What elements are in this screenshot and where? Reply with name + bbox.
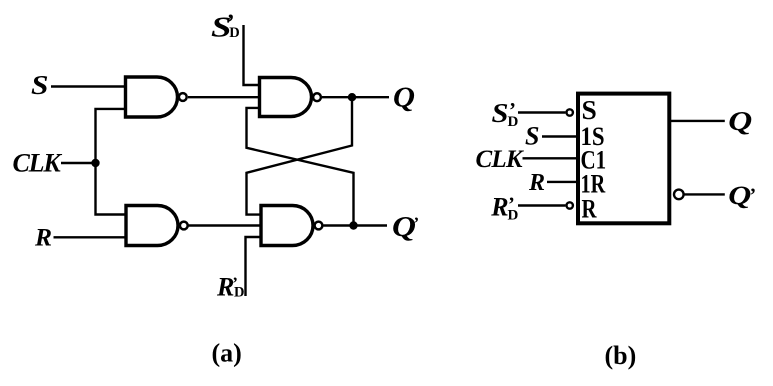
bubble G1 output bbox=[179, 93, 187, 101]
symbol box U1 bbox=[578, 94, 669, 224]
wire G2 output to Q bbox=[322, 96, 389, 98]
wire CLK branch down to gate G3 bbox=[96, 163, 127, 215]
wire R'D to gate G4 bbox=[246, 237, 262, 296]
NAND gate G2 (top-right) bbox=[260, 78, 312, 117]
bubble G4 output bbox=[315, 222, 323, 230]
wire S pin (b) bbox=[542, 135, 578, 137]
svg-text:R: R bbox=[582, 194, 597, 223]
svg-text:R: R bbox=[528, 170, 545, 196]
bubble S'D pin (b) bbox=[567, 109, 573, 115]
svg-text:(b): (b) bbox=[605, 341, 637, 370]
svg-text:S: S bbox=[582, 94, 597, 125]
svg-text:R: R bbox=[34, 223, 52, 252]
wire CLK input bbox=[61, 162, 96, 164]
bubble R'D pin (b) bbox=[567, 202, 573, 208]
wire R input bbox=[54, 236, 127, 238]
wire Q' output (b) bbox=[685, 193, 725, 195]
junction CLK node bbox=[91, 159, 99, 167]
bubble G2 output bbox=[313, 93, 321, 101]
svg-text:D: D bbox=[508, 208, 519, 224]
wire Q feedback to gate G4 (cross-coupling) bbox=[247, 97, 353, 214]
NAND gate G4 (bottom-right) bbox=[261, 206, 313, 246]
wire G3 output to G4 bbox=[189, 224, 262, 226]
wire R'D pin (b) bbox=[518, 204, 565, 206]
wire S'D to gate G2 bbox=[244, 25, 260, 85]
svg-text:D: D bbox=[508, 114, 519, 130]
svg-text:S: S bbox=[31, 70, 49, 100]
svg-text:S: S bbox=[492, 98, 509, 128]
svg-text:’: ’ bbox=[414, 213, 420, 232]
wire S'D pin (b) bbox=[518, 111, 565, 113]
svg-text:Q: Q bbox=[392, 212, 416, 243]
NAND gate G3 (bottom-left) bbox=[126, 206, 178, 246]
svg-text:Q: Q bbox=[728, 181, 751, 210]
svg-text:(a): (a) bbox=[212, 339, 242, 368]
wire Q output (b) bbox=[671, 120, 725, 122]
junction node Q' bbox=[349, 221, 357, 229]
wire CLK pin (b) bbox=[523, 157, 579, 159]
svg-text:’: ’ bbox=[750, 185, 757, 207]
svg-text:Q: Q bbox=[728, 106, 752, 136]
wire CLK branch up to gate G1 bbox=[96, 109, 126, 163]
NAND gate G1 (top-left) bbox=[126, 77, 178, 117]
wire G1 output to G2 bbox=[188, 96, 260, 98]
svg-text:CLK: CLK bbox=[476, 146, 525, 173]
svg-text:S: S bbox=[525, 122, 539, 151]
wire Q' feedback to gate G2 (cross-coupling) bbox=[247, 108, 354, 226]
wire S input bbox=[51, 85, 126, 87]
svg-text:D: D bbox=[229, 25, 239, 41]
junction node Q bbox=[348, 93, 356, 101]
svg-text:Q: Q bbox=[393, 82, 415, 113]
svg-text:R: R bbox=[490, 192, 508, 221]
bubble G3 output bbox=[180, 222, 188, 230]
bubble Q' output (b) bbox=[674, 190, 684, 200]
svg-text:CLK: CLK bbox=[13, 149, 63, 178]
wire G4 output to Q' bbox=[324, 224, 388, 226]
wire R pin (b) bbox=[547, 181, 578, 183]
svg-text:D: D bbox=[234, 285, 244, 301]
